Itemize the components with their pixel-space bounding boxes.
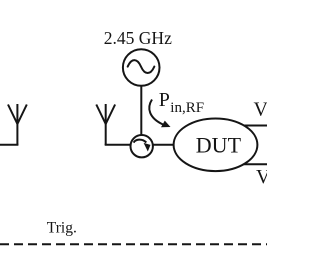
antenna A2 left arm	[96, 105, 105, 125]
svg-text:DUT: DUT	[196, 132, 242, 157]
antenna A1 left arm	[8, 105, 17, 125]
curved arrowhead	[161, 121, 171, 128]
antenna A1 mast	[16, 104, 18, 145]
svg-text:P: P	[159, 89, 170, 111]
svg-text:2.45 GHz: 2.45 GHz	[104, 28, 172, 48]
wire antenna A2 to circulator	[105, 144, 131, 146]
svg-text:V: V	[254, 99, 268, 121]
antenna A2 mast	[105, 104, 107, 145]
wire antenna A1 to left edge	[0, 144, 18, 146]
svg-text:V: V	[256, 166, 267, 188]
wire V top right	[238, 125, 267, 127]
circulator arrow arc	[134, 140, 147, 143]
oscillator source circle	[123, 49, 160, 86]
svg-text:in,RF: in,RF	[170, 100, 204, 116]
circulator circle	[131, 135, 153, 157]
curved arrow Pin,RF	[149, 100, 163, 125]
wire oscillator to circulator	[140, 86, 142, 135]
antenna A2 right arm	[106, 105, 115, 125]
oscillator sine wave	[128, 60, 155, 73]
svg-text:Trig.: Trig.	[47, 220, 77, 237]
antenna A1 right arm	[17, 105, 26, 125]
trigger dashed line	[0, 243, 267, 245]
DUT ellipse	[174, 119, 258, 172]
wire circulator to DUT	[153, 144, 174, 146]
circulator arrowhead	[144, 143, 151, 152]
wire V bottom right	[238, 163, 267, 165]
